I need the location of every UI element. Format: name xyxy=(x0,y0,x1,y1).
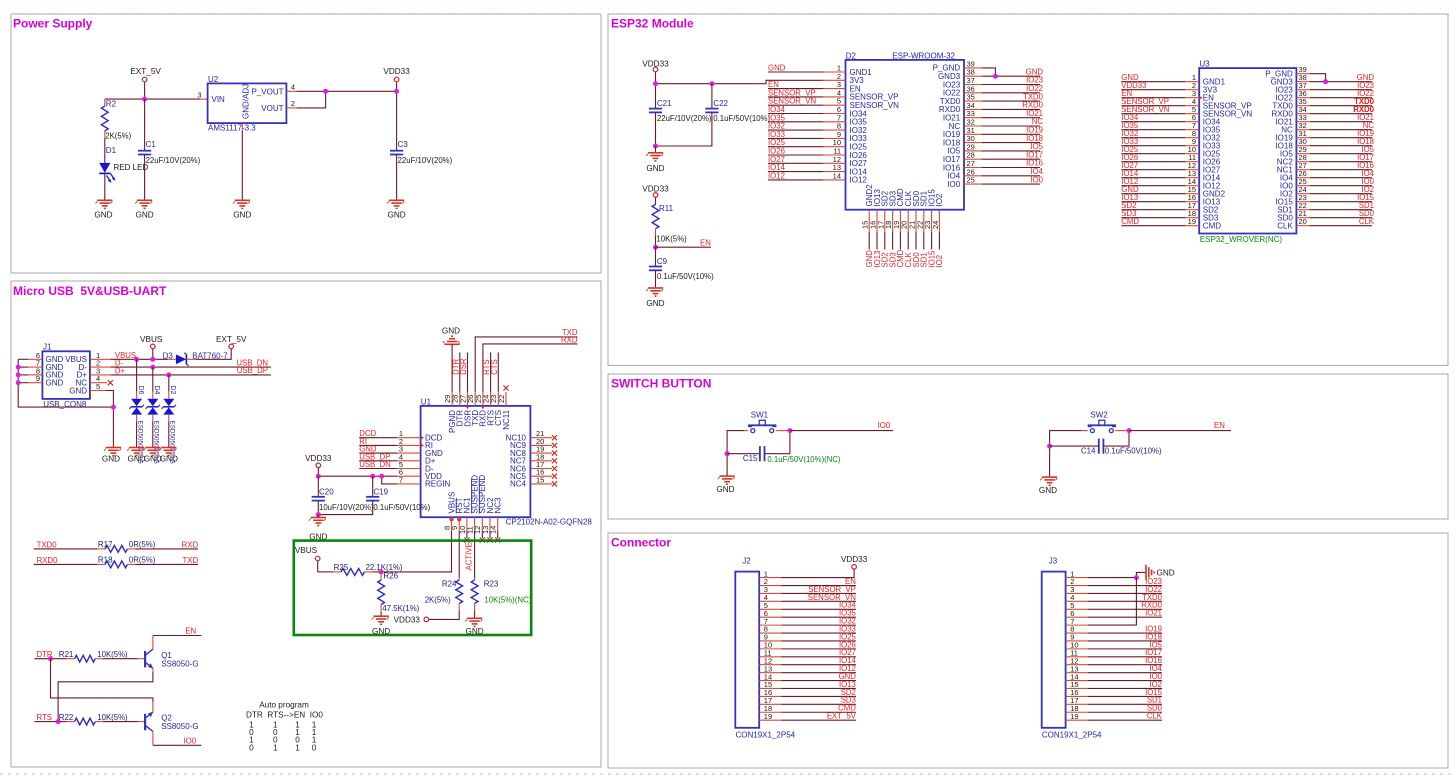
pin 5 D- of U1 xyxy=(397,460,420,469)
pin 9 RST of U1 xyxy=(450,517,459,531)
pin 2 D- of J1 xyxy=(90,359,111,368)
pin SW1 right xyxy=(776,430,790,432)
wire VOUT loop up xyxy=(297,91,326,108)
section frame SWITCH BUTTON xyxy=(608,374,1448,519)
svg-text:2K(5%): 2K(5%) xyxy=(425,595,451,604)
svg-text:CMD: CMD xyxy=(1121,217,1139,226)
wire IO0 from Q2 xyxy=(153,744,202,746)
net label DSR vertical xyxy=(459,358,468,375)
svg-text:CP2102N-A02-GQFN28: CP2102N-A02-GQFN28 xyxy=(506,518,593,527)
net label IO19 at U3 pin 31 xyxy=(1310,129,1374,138)
pin 13 NC2 of U1 no-connect xyxy=(481,517,493,542)
svg-text:CMD: CMD xyxy=(1203,222,1221,231)
svg-text:GND: GND xyxy=(135,211,153,220)
net label USB_DP xyxy=(359,452,397,461)
pin 4 D+ of U1 xyxy=(397,452,420,461)
junction VBUS at D6 xyxy=(134,357,139,362)
net label SD3 at J2 pin 17 xyxy=(781,696,856,705)
pin 14 of J3 xyxy=(1066,672,1088,681)
svg-text:0.1uF/50V(10%): 0.1uF/50V(10%) xyxy=(657,272,714,281)
sheet border ticks bottom xyxy=(0,773,1456,775)
net label GND at D2 pin 38 xyxy=(982,67,1043,76)
junction VDD33-C20 xyxy=(316,474,321,479)
svg-text:GND: GND xyxy=(160,455,178,464)
pin 16 NC5 of U1 no-connect xyxy=(530,468,557,479)
power flag VBUS xyxy=(140,335,163,360)
transistor Q1 SS8050-G xyxy=(138,636,199,673)
net label IO34 at J2 pin 5 xyxy=(781,601,856,610)
svg-text:REGIN: REGIN xyxy=(425,480,451,489)
pin 14 of J2 xyxy=(759,672,781,681)
pin 20 NC9 of U1 no-connect xyxy=(530,437,557,448)
net label CTS vertical xyxy=(490,359,499,375)
pin 24 IO2 of D2 xyxy=(931,210,940,232)
power flag VDD33 at J2 xyxy=(841,555,868,569)
net label IO15 at D2 pin 23 xyxy=(927,232,936,268)
pin 6 IO34 of U3 xyxy=(1185,113,1199,122)
svg-text:R2: R2 xyxy=(106,100,117,109)
section title Connector xyxy=(611,536,671,550)
wire J2 pin1 to VDD33 xyxy=(781,569,854,577)
svg-text:0: 0 xyxy=(249,743,254,752)
net label EN at Q1 xyxy=(185,627,196,636)
pin 14 NC3 of U1 no-connect xyxy=(489,517,501,542)
net label IO25 at J2 pin 9 xyxy=(781,632,856,641)
pin 22 NC11 of U1 no-connect xyxy=(497,385,509,406)
net label EN at D2 pin 3 xyxy=(768,80,823,89)
svg-text:10K(5%): 10K(5%) xyxy=(656,234,687,243)
pin 27 NC1 of U3 xyxy=(1296,161,1310,170)
wire R26 to ground xyxy=(380,612,382,616)
wire DTR row xyxy=(34,658,66,660)
svg-text:IO21: IO21 xyxy=(1145,609,1162,618)
svg-text:0: 0 xyxy=(312,743,317,752)
pin 28 IO17 of D2 xyxy=(964,151,982,160)
svg-text:GND: GND xyxy=(646,164,664,173)
pin 36 IO22 of U3 xyxy=(1296,89,1310,98)
wire TXD to label xyxy=(475,337,577,392)
pin 32 NC of U3 xyxy=(1296,121,1310,130)
net label GND at J2 pin 14 xyxy=(781,672,856,681)
net label CMD at D2 pin 19 xyxy=(896,232,905,268)
net label IO17 at D2 pin 28 xyxy=(982,150,1043,159)
power flag EXT_5V usb xyxy=(216,335,247,349)
wire RXD to label xyxy=(483,344,578,392)
pin 7 REGIN of U1 xyxy=(397,475,420,484)
net label IO4 at J3 pin 13 xyxy=(1088,664,1163,673)
pin 11 SUSPEND of U1 xyxy=(466,517,475,534)
pin 30 IO18 of U3 xyxy=(1296,137,1310,146)
pin 26 IO4 of D2 xyxy=(964,167,982,176)
wire EN stub xyxy=(656,246,711,248)
pin 5 of J3 xyxy=(1066,601,1088,610)
net label IO23 at U3 pin 37 xyxy=(1310,81,1374,90)
svg-text:14: 14 xyxy=(833,171,841,180)
pin 1 GND1 of U3 xyxy=(1185,73,1199,82)
pin 1 VBUS of J1 xyxy=(90,351,111,360)
ground under D1 xyxy=(94,200,112,219)
svg-text:GND: GND xyxy=(646,299,664,308)
net label IO16 at J3 pin 12 xyxy=(1088,656,1162,665)
svg-text:AMS1117-3.3: AMS1117-3.3 xyxy=(208,124,256,133)
net label IO13 at J2 pin 15 xyxy=(781,680,856,689)
svg-text:IO12: IO12 xyxy=(768,171,785,180)
svg-text:RXD0: RXD0 xyxy=(37,556,58,565)
svg-text:3: 3 xyxy=(197,91,201,100)
pin 33 IO21 of D2 xyxy=(964,109,982,118)
net label USB_DP xyxy=(237,366,268,375)
net label EN at SW2 xyxy=(1214,421,1225,430)
net label IO12 at U3 pin 14 xyxy=(1121,177,1185,186)
svg-text:10K(5%): 10K(5%) xyxy=(97,650,128,659)
junction VDD33-C21 xyxy=(653,81,658,86)
pin 4 of J3 xyxy=(1066,593,1088,602)
svg-text:R22: R22 xyxy=(59,713,74,722)
pin 25 IO0 of D2 xyxy=(964,176,982,185)
junction VDD33 node xyxy=(394,89,399,94)
resistor R21 10K xyxy=(59,650,138,662)
pin 6 of J3 xyxy=(1066,609,1088,618)
net label IO15 at J3 pin 16 xyxy=(1088,688,1163,697)
ground under U2 xyxy=(233,200,251,219)
svg-text:CON19X1_2P54: CON19X1_2P54 xyxy=(736,731,796,740)
net label IO34 at D2 pin 6 xyxy=(768,105,823,114)
wire J3 pin7 to ground node xyxy=(1088,578,1137,626)
net label ACTIVE vertical xyxy=(465,542,474,570)
pin 11 of J2 xyxy=(759,649,781,658)
pin 5 SENSOR_VN of U3 xyxy=(1185,105,1199,114)
net label SD1 at D2 pin 22 xyxy=(920,232,929,268)
pin 27 IO16 of D2 xyxy=(964,159,982,168)
pin 2 3V3 of D2 xyxy=(823,72,845,81)
net label RXD row1 xyxy=(182,540,199,549)
power flag VDD33 at U1 xyxy=(305,454,332,476)
svg-text:C9: C9 xyxy=(657,257,668,266)
svg-text:SWITCH BUTTON: SWITCH BUTTON xyxy=(611,377,711,391)
pin 24 IO2 of U3 xyxy=(1296,185,1310,194)
svg-text:2K(5%): 2K(5%) xyxy=(105,132,131,141)
svg-text:D2: D2 xyxy=(169,386,176,395)
svg-text:SS8050-G: SS8050-G xyxy=(161,722,198,731)
svg-text:IO0: IO0 xyxy=(1030,175,1043,184)
pin 12 IO27 of D2 xyxy=(823,155,845,164)
pin 18 of J2 xyxy=(759,704,781,713)
pin 30 IO18 of D2 xyxy=(964,134,982,143)
svg-text:GND: GND xyxy=(102,455,120,464)
net label IO12 at D2 pin 14 xyxy=(768,171,823,180)
pin 5 of J2 xyxy=(759,601,781,610)
net label IO2 at U3 pin 24 xyxy=(1310,185,1374,194)
net label TXD row2 xyxy=(182,556,198,565)
svg-text:2: 2 xyxy=(291,99,295,108)
svg-text:CTS: CTS xyxy=(490,359,499,375)
net label SD1 at U3 pin 22 xyxy=(1310,201,1374,210)
pin 11 of J3 xyxy=(1066,649,1088,658)
highlight TXD0 label xyxy=(1354,97,1375,106)
net label IO19 at D2 pin 31 xyxy=(982,126,1043,135)
wire SW2 left to ground xyxy=(1050,431,1088,478)
net label IO22 at D2 pin 36 xyxy=(982,84,1043,93)
pin 18 of J3 xyxy=(1066,704,1088,713)
ground under C20 xyxy=(309,515,327,542)
pin 17 SD2 of U3 xyxy=(1185,201,1199,210)
net label NC at U3 pin 32 xyxy=(1310,121,1374,130)
green highlight box auto-program divider xyxy=(294,541,531,635)
wire P_VOUT to VDD33 xyxy=(297,90,397,92)
svg-text:1: 1 xyxy=(295,743,300,752)
svg-text:U1: U1 xyxy=(421,397,432,406)
net label SD0 at D2 pin 21 xyxy=(912,232,921,268)
pin 8 of J1 xyxy=(18,366,42,375)
svg-text:RTS: RTS xyxy=(37,713,52,722)
pin 18 NC7 of U1 no-connect xyxy=(530,452,557,463)
pin 17 SD2 of D2 xyxy=(876,210,885,232)
section title SWITCH BUTTON xyxy=(611,377,711,391)
pin 5 GND of J1 xyxy=(90,382,106,391)
net label TXD0 at U3 pin 35 xyxy=(1310,97,1375,106)
svg-text:GND: GND xyxy=(94,211,112,220)
svg-text:5: 5 xyxy=(96,382,100,391)
pin 1 of J2 xyxy=(759,569,781,578)
net label RTS at R22 xyxy=(37,713,52,722)
svg-text:USB_DN: USB_DN xyxy=(359,460,391,469)
wire RTS stub xyxy=(490,352,492,391)
power flag VDD33 at C21 xyxy=(642,60,669,109)
highlight RXD0 label xyxy=(1353,105,1374,114)
svg-text:EN: EN xyxy=(1214,421,1225,430)
pin 15 NC4 of U1 no-connect xyxy=(530,475,557,486)
wire REGIN tie to VDD xyxy=(382,476,398,484)
svg-text:47.5K(1%): 47.5K(1%) xyxy=(382,604,419,613)
wire PGND to ground flag xyxy=(451,352,453,392)
pin 7 of J3 xyxy=(1066,617,1088,626)
pin 17 of J3 xyxy=(1066,696,1088,705)
pin 25 RXD of U1 xyxy=(474,392,483,406)
pin 38 GND3 of U3 xyxy=(1296,73,1310,82)
pin 2 VOUT of U2 xyxy=(286,99,296,108)
net label RXD0 row2 xyxy=(37,556,58,565)
svg-text:GND: GND xyxy=(1157,568,1175,577)
resistor R26 47.5K xyxy=(378,572,420,614)
net label IO2 at D2 pin 24 xyxy=(935,232,944,268)
ground under C9 xyxy=(646,288,664,308)
net label IO2 at J3 pin 15 xyxy=(1088,680,1162,689)
pin 35 TXD0 of U3 xyxy=(1296,97,1310,106)
net label IO32 at U3 pin 8 xyxy=(1121,129,1185,138)
pin 12 SUSPEND of U1 no-connect xyxy=(473,517,485,542)
junction VBUS at flag xyxy=(150,357,155,362)
net label NC at D2 pin 32 xyxy=(982,117,1043,126)
svg-text:R18: R18 xyxy=(98,555,113,564)
svg-text:J2: J2 xyxy=(742,557,751,566)
section frame Micro USB 5V&USB-UART xyxy=(11,281,601,767)
svg-text:D6: D6 xyxy=(137,386,144,395)
pin 3 EN of U3 xyxy=(1185,89,1199,98)
wire Q1 emitter to RTS node xyxy=(58,672,153,722)
net label VDD33 at U3 pin 2 xyxy=(1121,81,1185,90)
capacitor C21 xyxy=(649,99,712,146)
net label IO33 at U3 pin 9 xyxy=(1121,137,1185,146)
wire RST to R24 xyxy=(458,531,460,578)
svg-text:EN: EN xyxy=(185,627,196,636)
svg-text:DTR RTS-->EN IO0: DTR RTS-->EN IO0 xyxy=(246,711,323,720)
junction J1 pin7 xyxy=(16,365,21,370)
pin 3 of J3 xyxy=(1066,585,1088,594)
pin 39 P_GND of U3 xyxy=(1296,65,1310,74)
pin 6 of J1 xyxy=(18,351,42,360)
pin 19 of J3 xyxy=(1066,712,1088,721)
net label IO4 at U3 pin 26 xyxy=(1310,169,1375,178)
regulator U2 AMS1117-3.3 xyxy=(208,75,287,133)
net label IO19 at J3 pin 8 xyxy=(1088,624,1162,633)
pin 29 PGND of U1 xyxy=(443,392,452,406)
pin 35 TXD0 of D2 xyxy=(964,93,982,102)
pin 8 IO32 of U3 xyxy=(1185,129,1199,138)
junction U3 P_GND-GND3 xyxy=(1323,79,1328,84)
ground under C3 xyxy=(387,200,405,219)
pin 16 IO13 of D2 xyxy=(869,210,878,232)
junction J3 ground node xyxy=(1134,575,1139,580)
svg-text:CLK: CLK xyxy=(1359,217,1375,226)
capacitor C3 xyxy=(390,140,453,200)
svg-text:R26: R26 xyxy=(383,572,398,581)
wire EXT_5V to R2 and VIN xyxy=(105,98,200,100)
svg-text:P_VOUT: P_VOUT xyxy=(251,87,283,96)
pin 21 NC10 of U1 no-connect xyxy=(530,429,557,440)
pin 19 of J2 xyxy=(759,712,781,721)
net label IO18 at J3 pin 9 xyxy=(1088,632,1162,641)
net label CLK at J3 pin 19 xyxy=(1088,712,1163,721)
pin 11 IO26 of U3 xyxy=(1185,153,1199,162)
power flag VDD33 in green box xyxy=(394,615,429,624)
wire DTR stub xyxy=(459,352,461,391)
pin 4 NC of J1 no-connect xyxy=(90,374,113,385)
junction REGIN-VDD xyxy=(379,474,384,479)
svg-text:4: 4 xyxy=(291,83,295,92)
svg-text:0R(5%): 0R(5%) xyxy=(129,540,156,549)
ground under D6 xyxy=(127,448,145,464)
net label TXD0 row1 xyxy=(37,540,58,549)
wire D+ row to USB_DP xyxy=(110,374,271,376)
net label RXD xyxy=(561,336,578,345)
svg-text:D3: D3 xyxy=(163,351,174,360)
net label SD0 at U3 pin 21 xyxy=(1310,209,1375,218)
svg-text:U2: U2 xyxy=(208,75,219,84)
svg-text:0.1uF/50V(10%)(NC): 0.1uF/50V(10%)(NC) xyxy=(767,455,841,464)
pin 23 IO15 of D2 xyxy=(923,210,932,232)
net label IO4 at D2 pin 26 xyxy=(982,167,1044,176)
junction C22 tap xyxy=(709,81,714,86)
pin 14 IO12 of D2 xyxy=(823,171,845,180)
ground flag above U1 xyxy=(442,327,460,353)
svg-text:CON19X1_2P54: CON19X1_2P54 xyxy=(1042,731,1102,740)
pin 2 RI of U1 xyxy=(397,437,420,446)
wire VDD rail xyxy=(318,475,397,477)
svg-text:GND: GND xyxy=(1039,486,1057,495)
svg-text:RXD0: RXD0 xyxy=(1353,105,1374,114)
junction SW1 right xyxy=(787,428,792,433)
net label TXD xyxy=(562,328,578,337)
pin 18 SD3 of U3 xyxy=(1185,209,1199,218)
svg-text:GND: GND xyxy=(372,627,390,636)
svg-text:ESP32 Module: ESP32 Module xyxy=(611,17,694,31)
net label RXD0 at D2 pin 34 xyxy=(982,101,1044,110)
svg-text:GND: GND xyxy=(233,211,251,220)
net label IO35 at U3 pin 7 xyxy=(1121,121,1185,130)
resistor R25 22.1K xyxy=(333,563,403,575)
TVS diode D6 xyxy=(129,359,143,464)
wire DSR stub xyxy=(467,352,469,391)
svg-text:C21: C21 xyxy=(657,99,672,108)
wire J3 pin1 to ground xyxy=(1088,572,1146,577)
net label IO18 at U3 pin 30 xyxy=(1310,137,1374,146)
module U3 ESP32_WROVER xyxy=(1199,60,1296,244)
svg-text:CLK: CLK xyxy=(1147,712,1163,721)
net label IO17 at U3 pin 28 xyxy=(1310,153,1374,162)
net label EN at U3 pin 3 xyxy=(1121,89,1185,98)
ground under SW1 xyxy=(716,476,734,494)
net label GND at U3 pin 38 xyxy=(1310,73,1374,82)
pin 14 IO12 of U3 xyxy=(1185,177,1199,186)
pin 3 of J2 xyxy=(759,585,781,594)
net label IO32 at D2 pin 8 xyxy=(768,122,823,131)
svg-text:14: 14 xyxy=(489,526,498,534)
svg-text:Power Supply: Power Supply xyxy=(13,17,93,31)
pin 10 of J3 xyxy=(1066,641,1088,650)
pin 33 IO21 of U3 xyxy=(1296,113,1310,122)
net label SENSOR_VN at J2 pin 4 xyxy=(781,593,856,602)
junction SW1-C15 left xyxy=(725,451,730,456)
net label IO21 at J3 pin 6 xyxy=(1088,609,1162,618)
wire VBUS pin to divider xyxy=(381,531,451,572)
net label IO13 at D2 pin 16 xyxy=(873,232,882,268)
net label IO0 at U3 pin 25 xyxy=(1310,177,1375,186)
pin 25 IO0 of U3 xyxy=(1296,177,1310,186)
capacitor C22 xyxy=(656,84,771,146)
net label EN at J2 pin 2 xyxy=(781,577,856,586)
wire CTS stub xyxy=(497,352,499,391)
net label CLK at U3 pin 20 xyxy=(1310,217,1375,226)
pin 22 SD1 of D2 xyxy=(915,210,924,232)
section frame Connector xyxy=(608,533,1448,768)
pin 27 DSR of U1 xyxy=(458,392,467,406)
net label IO26 at D2 pin 11 xyxy=(768,147,823,156)
net label CLK at D2 pin 20 xyxy=(904,232,913,268)
pin 6 VDD of U1 xyxy=(397,468,420,477)
net label IO32 at J2 pin 7 xyxy=(781,617,856,626)
ground under C21 xyxy=(646,146,664,173)
junction J1 pin9 xyxy=(16,380,21,385)
pin 26 TXD of U1 xyxy=(466,392,475,406)
resistor R2 xyxy=(101,99,131,141)
net label SENSOR_VP at U3 pin 4 xyxy=(1121,97,1185,106)
svg-text:VDD33: VDD33 xyxy=(841,555,868,564)
pin 8 of J3 xyxy=(1066,625,1088,634)
svg-text:GND: GND xyxy=(46,379,64,388)
svg-text:VIN: VIN xyxy=(212,95,226,104)
svg-text:R11: R11 xyxy=(659,204,674,213)
net label USB_DN xyxy=(359,460,397,469)
wire SUSPEND to R23 xyxy=(474,531,476,578)
svg-text:25: 25 xyxy=(967,176,975,185)
power flag VDD33 power supply output xyxy=(383,67,410,151)
capacitor C14 xyxy=(1050,439,1162,456)
net label IO16 at U3 pin 27 xyxy=(1310,161,1374,170)
pin 13 of J2 xyxy=(759,664,781,673)
ground sideways at J3 xyxy=(1146,565,1175,580)
wire R23 to ground xyxy=(474,611,476,618)
svg-text:RXD: RXD xyxy=(182,540,199,549)
